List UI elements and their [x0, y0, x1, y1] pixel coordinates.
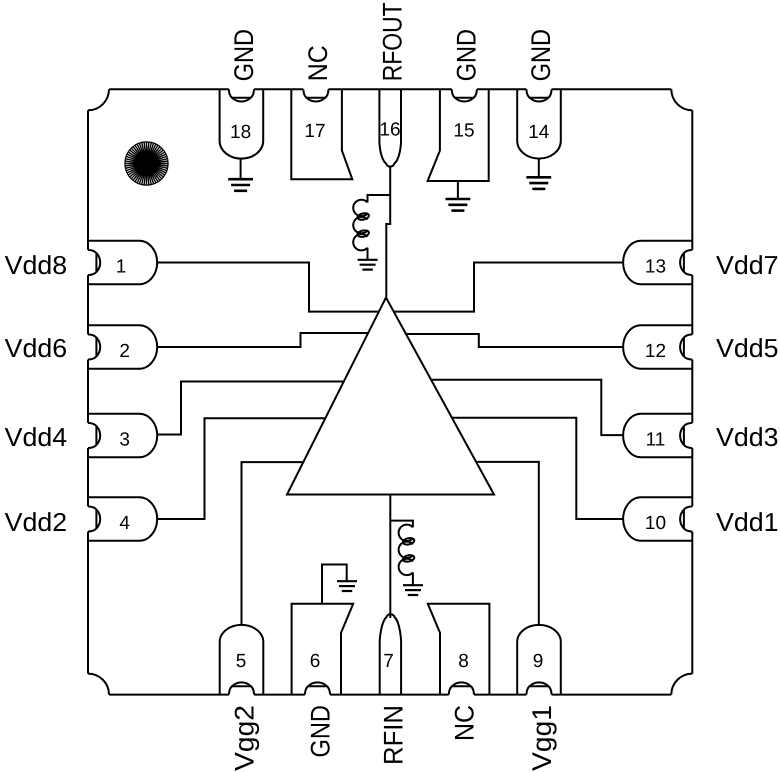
chip corner top-right [671, 89, 692, 110]
ground under pad 14 [526, 177, 551, 189]
svg-text:9: 9 [533, 651, 544, 672]
ground under pad 15 [446, 199, 471, 211]
die orientation marker (starburst) [125, 142, 168, 185]
pin number labels [116, 120, 666, 673]
pad 17 (NC) [291, 89, 352, 179]
svg-text:16: 16 [379, 120, 400, 141]
wire pin2 to triangle [157, 333, 368, 347]
wire pad18 to ground [240, 159, 242, 180]
amplifier triangle [287, 298, 494, 495]
wire L2 to ground [412, 572, 414, 585]
pad 16 (RFOUT) [379, 89, 401, 166]
wire RFIN: base to pad7 [389, 495, 391, 619]
pad 4 (Vdd2) [88, 497, 157, 541]
pad 14 (GND) [517, 89, 561, 158]
wire pin3 to triangle [157, 382, 344, 435]
wire pin5 to triangle [242, 462, 304, 625]
svg-text:RFOUT: RFOUT [377, 2, 407, 81]
chip corner bottom-left [88, 674, 109, 695]
svg-text:3: 3 [119, 429, 130, 450]
pad 2 (Vdd6) [88, 325, 157, 369]
svg-text:Vdd2: Vdd2 [5, 507, 68, 537]
wire pin13 to triangle [394, 263, 623, 312]
svg-text:NC: NC [303, 45, 333, 81]
svg-text:17: 17 [304, 121, 325, 142]
ground L1 [358, 260, 378, 270]
pad 10 (Vdd1) [623, 497, 692, 541]
wire pad14 to ground [538, 159, 540, 178]
chip corner bottom-right [671, 674, 692, 695]
svg-text:1: 1 [116, 256, 127, 277]
svg-text:7: 7 [383, 651, 394, 672]
svg-text:GND: GND [452, 29, 482, 81]
wire pin1 to triangle [157, 263, 379, 312]
bracket wire near pad 6 [322, 565, 347, 604]
svg-text:Vdd8: Vdd8 [5, 250, 68, 280]
pad 15 (GND) [428, 89, 489, 181]
svg-text:12: 12 [645, 341, 666, 362]
svg-text:GND: GND [229, 29, 259, 81]
svg-text:Vdd7: Vdd7 [716, 250, 779, 280]
pad 3 (Vdd4) [88, 414, 157, 458]
svg-text:Vdd3: Vdd3 [716, 422, 779, 452]
chip outline: top edge [109, 88, 229, 90]
svg-text:Vgg1: Vgg1 [527, 705, 557, 771]
svg-text:10: 10 [645, 513, 666, 534]
chip outline: right edge [691, 110, 693, 250]
svg-text:8: 8 [458, 651, 469, 672]
pad 5 (Vgg2) [220, 625, 264, 695]
svg-text:GND: GND [306, 705, 336, 758]
bottom rotated labels [230, 705, 557, 771]
wire branch to inductor L2 [390, 521, 413, 528]
pad 18 (GND) [220, 89, 264, 158]
pad 9 (Vgg1) [517, 625, 561, 695]
pad 13 (Vdd7) [623, 241, 692, 285]
chip corner top-left [88, 89, 109, 110]
chip outline: bottom edge [109, 694, 229, 696]
pad 11 (Vdd3) [623, 414, 692, 458]
inductor L1 [353, 200, 367, 251]
wire pin11 to triangle [431, 380, 623, 435]
svg-text:NC: NC [450, 705, 480, 741]
top rotated labels [229, 2, 556, 81]
svg-text:4: 4 [119, 513, 130, 534]
ground L2 [403, 585, 423, 595]
svg-text:18: 18 [230, 122, 251, 143]
wire branch to inductor L1 [368, 195, 391, 202]
svg-text:11: 11 [646, 429, 666, 450]
svg-text:RFIN: RFIN [378, 705, 408, 765]
svg-text:Vgg2: Vgg2 [230, 705, 260, 771]
ground bracket [337, 581, 357, 591]
svg-text:Vdd6: Vdd6 [5, 333, 68, 363]
svg-text:6: 6 [310, 651, 321, 672]
pad 12 (Vdd5) [623, 325, 692, 369]
svg-text:5: 5 [236, 651, 247, 672]
svg-text:GND: GND [526, 29, 556, 81]
svg-text:Vdd4: Vdd4 [5, 422, 68, 452]
pad 8 (NC) [428, 604, 490, 695]
wire pin9 to triangle [476, 462, 539, 625]
wire pad15 to ground [457, 181, 459, 199]
chip outline: left edge [87, 110, 89, 250]
pad 1 (Vdd8) [88, 241, 157, 285]
inductor L2 [399, 525, 413, 576]
ground under pad 18 [228, 179, 253, 191]
svg-text:15: 15 [453, 120, 474, 141]
svg-text:2: 2 [119, 341, 130, 362]
pad 6 (GND) [292, 604, 354, 695]
pad 7 (RFIN) [380, 614, 401, 694]
svg-text:14: 14 [528, 122, 550, 143]
wire pin10 to triangle [452, 418, 623, 519]
svg-text:13: 13 [645, 256, 666, 277]
svg-text:Vdd5: Vdd5 [716, 333, 779, 363]
wire L1 to ground [367, 248, 369, 260]
svg-text:Vdd1: Vdd1 [716, 507, 779, 537]
wire RFOUT: pad16 to apex with jog [386, 167, 390, 298]
wire pin12 to triangle [406, 334, 623, 347]
side net labels [5, 250, 779, 537]
wire pin4 to triangle [157, 418, 325, 519]
